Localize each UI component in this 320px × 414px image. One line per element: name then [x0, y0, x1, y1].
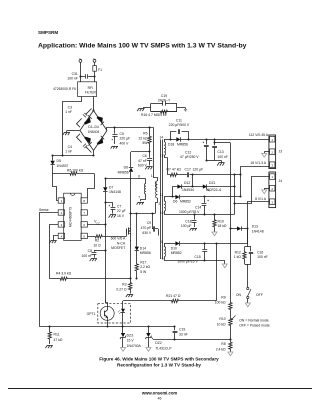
diode D6 MR856 clamp	[118, 152, 150, 214]
transformer secondary winding pins 14-12	[159, 135, 167, 157]
capacitor C11 220uF/500V	[169, 118, 190, 139]
svg-text:www.onsemi.com: www.onsemi.com	[141, 390, 177, 395]
capacitor C12 47uF/250V	[180, 139, 209, 160]
transformer core	[154, 140, 162, 260]
svg-text:10 Ω: 10 Ω	[93, 244, 101, 248]
svg-text:15 V: 15 V	[127, 339, 135, 343]
label 47263000-R F6	[53, 87, 76, 91]
svg-text:14: 14	[159, 135, 163, 139]
label switch modes	[239, 318, 270, 327]
svg-text:Reconfiguration for 1.3 W TV S: Reconfiguration for 1.3 W TV Stand‑by	[117, 363, 201, 368]
resistor R3 0.27 ohm sense	[116, 277, 133, 297]
svg-text:0.27 Ω: 0.27 Ω	[116, 287, 127, 291]
IC U1 MC44608P75	[64, 193, 81, 240]
resistor R9 100k	[215, 143, 232, 313]
diode D18 MR856	[168, 137, 188, 146]
chassis ground at IC pin 4	[49, 236, 58, 244]
svg-text:1000 µF/35 V: 1000 µF/35 V	[179, 210, 200, 214]
svg-text:470 pF: 470 pF	[141, 226, 152, 230]
chassis ground at J4 pin 2	[262, 188, 269, 194]
svg-text:47 kΩ: 47 kΩ	[54, 338, 63, 342]
svg-text:J4: J4	[279, 179, 283, 183]
svg-text:47 nF: 47 nF	[138, 159, 147, 163]
IC pin 7	[81, 210, 87, 215]
resistor R16 4.7M/4kV	[141, 110, 177, 117]
svg-text:100 µF: 100 µF	[181, 224, 192, 228]
svg-text:100 nF: 100 nF	[81, 254, 92, 258]
svg-text:1N4934: 1N4934	[182, 188, 194, 192]
svg-text:220 µF/500 V: 220 µF/500 V	[169, 123, 190, 127]
svg-text:MR852: MR852	[171, 251, 182, 255]
svg-text:R3: R3	[122, 283, 126, 287]
svg-text:5W: 5W	[142, 141, 148, 145]
svg-text:J3: J3	[279, 149, 283, 153]
switch ON/OFF	[236, 264, 263, 307]
resistor R10 10k adjustable	[217, 313, 236, 331]
wire D5 to IC pin 1	[53, 187, 59, 201]
HV positive rail	[107, 126, 154, 130]
svg-text:C13: C13	[217, 150, 223, 154]
secondary ground rail with chassis ground	[205, 159, 224, 165]
capacitor C17 120uF	[180, 168, 242, 178]
label 16V output	[250, 161, 266, 165]
wire RFI right output to bridge	[93, 97, 95, 111]
svg-text:R7: R7	[167, 168, 171, 172]
svg-text:D18: D18	[168, 143, 174, 147]
svg-text:600 V/6 A: 600 V/6 A	[111, 237, 126, 241]
svg-text:C8: C8	[88, 249, 92, 253]
capacitor C18 100uF	[181, 215, 197, 231]
svg-text:47 kΩ: 47 kΩ	[172, 168, 181, 172]
resistor R5 22k 5W snubber	[139, 128, 152, 153]
svg-text:R4 3.9 kΩ: R4 3.9 kΩ	[56, 272, 72, 276]
svg-text:OFF: OFF	[256, 293, 263, 297]
svg-text:R8: R8	[221, 342, 225, 346]
title	[38, 43, 247, 50]
wire R6 to IC pin 8	[88, 174, 95, 198]
capacitor C15 1000uF/16V	[177, 242, 207, 263]
svg-text:D6: D6	[173, 200, 177, 204]
svg-text:2N2F–Y: 2N2F–Y	[158, 99, 171, 103]
svg-text:R2: R2	[95, 239, 99, 243]
svg-text:22 kΩ: 22 kΩ	[139, 136, 148, 140]
caption line 2	[117, 363, 201, 368]
svg-text:1N4937: 1N4937	[57, 164, 69, 168]
svg-text:9: 9	[162, 257, 164, 261]
resistor R11 47k	[45, 327, 63, 348]
svg-text:TL431CLP: TL431CLP	[155, 346, 172, 350]
wire 8V to J4 pin 3	[246, 202, 268, 244]
connector J4	[269, 172, 282, 208]
svg-text:16 V: 16 V	[117, 214, 125, 218]
svg-text:100 nF: 100 nF	[217, 155, 228, 159]
svg-text:630 V: 630 V	[138, 163, 148, 167]
svg-text:ON = Normal mode: ON = Normal mode	[239, 318, 268, 322]
svg-text:OFF = Pulsed mode: OFF = Pulsed mode	[239, 324, 270, 328]
diode D7 1N4148	[103, 177, 121, 224]
svg-text:5 W: 5 W	[140, 270, 147, 274]
connector J3	[269, 135, 282, 169]
svg-text:R21 47 Ω: R21 47 Ω	[166, 294, 181, 298]
resistor R6 100k	[53, 168, 95, 175]
terminal AC input L	[79, 59, 82, 82]
footer rule	[8, 388, 312, 390]
wire pin12 to R7 row	[167, 158, 169, 175]
svg-text:R5: R5	[143, 132, 147, 136]
svg-text:ON: ON	[236, 293, 242, 297]
svg-text:C11: C11	[176, 118, 182, 122]
svg-text:1N5404: 1N5404	[88, 130, 100, 134]
svg-text:47263000-R F6: 47263000-R F6	[53, 87, 76, 91]
svg-text:MCR22–6: MCR22–6	[206, 188, 221, 192]
svg-text:DZ1: DZ1	[209, 181, 216, 185]
IC pin 5	[81, 233, 87, 238]
svg-text:100 nF: 100 nF	[67, 77, 78, 81]
wire crowbar row	[171, 175, 192, 198]
ground arrow right of C19	[183, 108, 187, 113]
chassis ground left of C19	[137, 108, 145, 112]
svg-text:1: 1	[151, 174, 153, 178]
wire 16V to J3 pin 3	[239, 167, 268, 198]
diode D12 1N4934	[177, 181, 203, 192]
svg-text:SMPSRM: SMPSRM	[38, 30, 58, 35]
svg-text:C15: C15	[194, 255, 200, 259]
wire R21 row	[123, 300, 163, 302]
svg-text:120 µF: 120 µF	[193, 168, 204, 172]
wire IC pin 3 down to R4 row	[50, 225, 59, 279]
capacitor C19b 33nF comp	[173, 325, 188, 339]
svg-text:112 V/0.45 A: 112 V/0.45 A	[249, 133, 269, 137]
svg-text:OPT1: OPT1	[87, 312, 96, 316]
wire Sense from IC pin 2 down to feedback row	[39, 208, 58, 327]
svg-text:18 kΩ: 18 kΩ	[218, 224, 227, 228]
diode D6 MR852 16V rectifier	[167, 195, 241, 204]
svg-text:C9: C9	[147, 221, 151, 225]
svg-text:10 kΩ: 10 kΩ	[217, 322, 226, 326]
chassis ground at bridge left corner	[63, 131, 80, 136]
RFI filter module	[78, 82, 97, 97]
IC pin 3	[58, 222, 64, 227]
svg-text:D1–D4: D1–D4	[88, 125, 99, 129]
wire comp row to divider	[154, 338, 232, 340]
svg-text:D7: D7	[109, 185, 113, 189]
diode D14 MR856 snubber	[135, 212, 151, 256]
svg-text:1 kΩ: 1 kΩ	[234, 255, 242, 259]
resistor R2 10 ohm gate	[87, 235, 126, 248]
svg-text:47 µF/250 V: 47 µF/250 V	[180, 155, 199, 159]
svg-text:C17: C17	[185, 168, 191, 172]
svg-text:R19: R19	[218, 219, 224, 223]
caption line 1	[99, 356, 219, 361]
svg-text:C19: C19	[161, 94, 167, 98]
wire 112V sense tap to divider	[213, 141, 230, 143]
svg-text:C18: C18	[185, 219, 191, 223]
svg-text:D6: D6	[124, 166, 128, 170]
svg-text:Sense: Sense	[39, 208, 49, 212]
svg-text:C5: C5	[120, 132, 124, 136]
svg-text:R12: R12	[235, 250, 241, 254]
IC pin 1	[58, 198, 64, 203]
svg-text:FILTER: FILTER	[85, 91, 97, 95]
header SMPSRM	[38, 30, 58, 35]
svg-text:R17: R17	[140, 260, 146, 264]
chassis ground at J3 pin 2	[262, 152, 269, 158]
svg-text:N-CH: N-CH	[117, 241, 126, 245]
diode D13 1N4148 standby feed	[229, 225, 263, 234]
svg-text:C16: C16	[257, 250, 263, 254]
wire pin10 rail	[167, 213, 235, 215]
svg-text:D14: D14	[140, 246, 146, 250]
capacitor C4 across lower-left bridge diode	[65, 134, 91, 154]
IC pin 4	[58, 233, 64, 238]
wire pin9 to ground	[167, 261, 228, 268]
diode D5 1N4937 startup	[50, 155, 68, 187]
svg-text:Figure 46. Wide Mains 100 W TV: Figure 46. Wide Mains 100 W TV SMPS with…	[99, 356, 219, 361]
fuse F1	[93, 66, 102, 82]
resistor R19 18k	[212, 215, 227, 236]
svg-text:1N4148: 1N4148	[252, 229, 264, 233]
wire feedback row	[40, 325, 175, 327]
svg-text:C6: C6	[142, 154, 146, 158]
svg-text:C19: C19	[179, 328, 185, 332]
footer page number	[158, 396, 162, 400]
svg-text:C12: C12	[185, 150, 191, 154]
svg-text:2.2 kΩ: 2.2 kΩ	[140, 265, 150, 269]
svg-text:1 nF: 1 nF	[65, 150, 72, 154]
svg-text:DZ2: DZ2	[155, 341, 162, 345]
transformer secondary winding pins 8-9	[161, 240, 166, 261]
svg-text:MR856: MR856	[140, 251, 151, 255]
svg-text:7: 7	[138, 196, 140, 200]
thyristor DZ1 MCR22-6	[191, 181, 234, 192]
svg-text:46: 46	[158, 396, 162, 400]
svg-text:22 µF: 22 µF	[117, 209, 126, 213]
resistor R21 47 ohm	[163, 242, 218, 302]
wire J4 pin 1 feed	[234, 177, 269, 204]
capacitor C9 470pF 630V	[141, 212, 159, 235]
wire bridge bottom to primary ground rail	[92, 151, 94, 157]
svg-text:6: 6	[138, 175, 140, 179]
transformer aux winding pins 6-7	[137, 175, 146, 205]
terminal AC input N	[93, 59, 96, 66]
wire aux winding pin 6 to D7	[105, 178, 138, 180]
svg-text:630 V: 630 V	[142, 231, 152, 235]
IC pin 8	[81, 198, 87, 203]
capacitor C6 47nF 630V snubber	[138, 152, 153, 170]
svg-text:R10: R10	[219, 317, 225, 321]
bridge rectifier D1-D4 1N5404	[80, 109, 107, 150]
capacitor C8 100nF	[81, 249, 106, 261]
optocoupler OPT1	[87, 300, 131, 327]
svg-text:R6 100 kΩ: R6 100 kΩ	[67, 168, 84, 172]
svg-text:220 µF: 220 µF	[120, 137, 131, 141]
diode D10 MR852 8V rectifier	[167, 241, 248, 255]
svg-text:F1: F1	[98, 68, 102, 72]
capacitor C13 100nF	[212, 139, 228, 160]
capacitor C31	[67, 72, 95, 80]
svg-text:400 V: 400 V	[120, 141, 130, 145]
MOSFET Q1 600V/6A N-CH	[111, 212, 156, 278]
resistor R17 2.2k 5W	[135, 256, 150, 280]
wire IC pin 6 Vcc	[87, 219, 106, 225]
svg-text:100 kΩ: 100 kΩ	[215, 301, 226, 305]
svg-text:Application: Wide Mains 100 W: Application: Wide Mains 100 W TV SMPS wi…	[38, 43, 247, 50]
svg-text:C7: C7	[117, 204, 121, 208]
IC pin 2	[58, 210, 64, 215]
IC pin 6	[81, 222, 87, 227]
svg-text:MR856: MR856	[177, 143, 188, 147]
footer url	[141, 390, 177, 395]
wire Vcc line down to optocoupler	[105, 224, 107, 302]
svg-text:R11: R11	[54, 332, 60, 336]
svg-text:C31: C31	[72, 72, 78, 76]
svg-text:R9: R9	[221, 295, 225, 299]
resistor R4 3.9k sense filter	[50, 272, 131, 281]
svg-text:MR852: MR852	[180, 200, 191, 204]
svg-text:33 nF: 33 nF	[179, 332, 188, 336]
svg-text:16 V/1.3 A: 16 V/1.3 A	[250, 161, 266, 165]
svg-text:100 nF: 100 nF	[257, 255, 268, 259]
transformer primary winding pins 1-2	[151, 128, 161, 214]
capacitor C14 1000uF/35V	[179, 195, 209, 215]
svg-text:C4: C4	[68, 145, 72, 149]
capacitor C7 22uF 16V	[104, 201, 125, 218]
resistor R7 47k	[167, 168, 182, 177]
capacitor C19 2N2F-Y with R16 across transformer	[145, 94, 183, 112]
svg-text:1N4148: 1N4148	[109, 190, 121, 194]
svg-text:C14: C14	[195, 205, 201, 209]
svg-text:10: 10	[160, 211, 164, 215]
capacitor C5 220uF 400V bulk	[111, 128, 131, 149]
primary negative rail	[51, 154, 94, 156]
svg-text:MOSFET: MOSFET	[111, 246, 125, 250]
label 112V output	[249, 133, 269, 137]
wire RFI left output to AC line down	[63, 97, 82, 156]
svg-text:D12: D12	[184, 181, 190, 185]
resistor R8 2.4k	[216, 331, 233, 356]
svg-text:MC44608P75: MC44608P75	[69, 207, 73, 227]
transformer secondary winding pins 11-10	[160, 193, 167, 215]
svg-text:2.4 kΩ: 2.4 kΩ	[216, 347, 226, 351]
svg-text:8 V/1 A: 8 V/1 A	[255, 197, 267, 201]
wire DZ1 to vertical	[233, 175, 235, 215]
svg-text:11: 11	[160, 193, 164, 197]
svg-text:D5: D5	[57, 159, 61, 163]
resistor R12 1k with C16	[234, 229, 268, 265]
capacitor C3 across upper-left bridge diode	[65, 106, 91, 128]
svg-text:1 nF: 1 nF	[65, 110, 72, 114]
label 8V output	[255, 197, 267, 201]
svg-text:C3: C3	[68, 106, 72, 110]
svg-text:12: 12	[160, 154, 164, 158]
svg-text:MR856: MR856	[118, 170, 129, 174]
svg-text:R16 4.7 MΩ/4 kV: R16 4.7 MΩ/4 kV	[141, 113, 168, 117]
svg-text:D13: D13	[252, 225, 258, 229]
svg-text:RFI: RFI	[88, 86, 93, 90]
wire 112V rail from pin 14	[167, 138, 269, 140]
svg-text:1N4740A: 1N4740A	[127, 344, 142, 348]
svg-text:DZ3: DZ3	[127, 333, 134, 337]
svg-text:D10: D10	[171, 246, 177, 250]
zener DZ3 15V 1N4740A	[120, 327, 141, 351]
programmable zener DZ2 TL431CLP	[145, 327, 172, 351]
svg-text:LL4811: LL4811	[154, 181, 158, 190]
svg-text:8: 8	[161, 240, 163, 244]
